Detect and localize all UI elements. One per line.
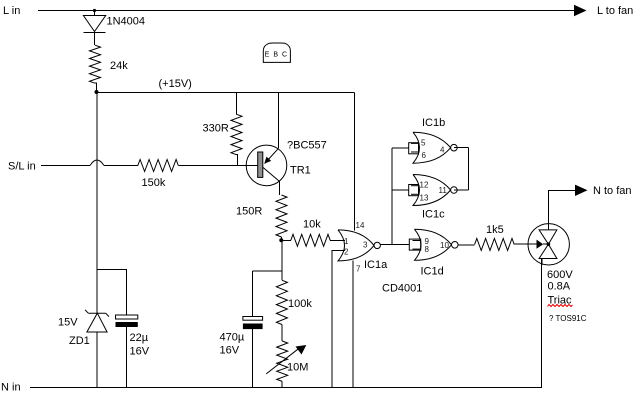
svg-text:150R: 150R <box>236 206 262 218</box>
svg-text:N to fan: N to fan <box>593 185 632 197</box>
svg-text:IC1a: IC1a <box>364 259 388 271</box>
svg-text:(+15V): (+15V) <box>159 78 192 90</box>
svg-text:L to fan: L to fan <box>597 5 633 17</box>
junction diode tap <box>93 9 96 12</box>
svg-text:11: 11 <box>439 186 448 195</box>
svg-text:TR1: TR1 <box>290 165 311 177</box>
wire bus to IC1c input <box>392 189 409 191</box>
svg-text:10M: 10M <box>287 362 308 374</box>
transistor package outline EBC <box>263 43 290 62</box>
junction triac gate <box>547 242 551 246</box>
wire 150R to junction <box>281 237 283 240</box>
wire 470u top lead <box>251 271 253 316</box>
transistor TR1 BC557 <box>246 145 287 186</box>
wire 24k to +15V rail <box>95 83 97 92</box>
svg-text:16V: 16V <box>130 346 150 358</box>
wire collector down <box>278 181 280 195</box>
svg-text:8: 8 <box>425 245 430 254</box>
capacitor 22u 16V <box>116 315 138 327</box>
wire 470u bottom to N line <box>251 329 253 387</box>
zener diode ZD1 15V <box>85 310 109 332</box>
svg-text:24k: 24k <box>110 60 128 72</box>
wire tee to 22u capacitor <box>97 269 127 315</box>
wire pin 7 to N line <box>352 260 354 387</box>
svg-text:S/L in: S/L in <box>8 161 36 173</box>
svg-text:150k: 150k <box>142 177 166 189</box>
wire +15V node down to zener <box>96 93 98 314</box>
arrow L to fan <box>574 5 587 16</box>
wire L in to L to fan <box>38 10 575 12</box>
svg-text:IC1b: IC1b <box>422 117 445 129</box>
wire 10M to N line <box>281 381 283 387</box>
wire 150k to base <box>178 165 257 167</box>
arrow gate <box>537 240 544 249</box>
svg-text:22µ: 22µ <box>130 332 149 344</box>
wire 100k to 10M <box>281 325 283 342</box>
svg-text:ZD1: ZD1 <box>69 335 90 347</box>
svg-text:7: 7 <box>356 265 361 274</box>
svg-text:1: 1 <box>344 237 349 246</box>
wire N in line <box>30 387 542 389</box>
wire IC1a out to gates input bus <box>380 244 409 246</box>
svg-text:10k: 10k <box>303 219 321 231</box>
svg-text:?BC557: ?BC557 <box>287 140 327 152</box>
svg-text:15V: 15V <box>58 317 78 329</box>
svg-text:? TOS91C: ? TOS91C <box>549 314 587 323</box>
arrow N to fan <box>575 185 588 196</box>
diode D1 1N4004 <box>83 16 105 33</box>
resistor 150R <box>276 195 287 237</box>
potentiometer 10M <box>277 341 288 381</box>
wire pin 14 from rail <box>354 93 356 231</box>
svg-text:16V: 16V <box>220 345 240 357</box>
wire input bus vertical <box>391 148 393 245</box>
wire triac bottom to N line <box>541 259 543 388</box>
wire junction to 10k <box>281 239 291 241</box>
wire rail to 330R <box>236 93 238 115</box>
wire S/L in with hop over supply line <box>41 165 90 167</box>
resistor 330R <box>231 114 242 154</box>
svg-text:2: 2 <box>344 247 349 256</box>
svg-text:1k5: 1k5 <box>486 224 504 236</box>
svg-text:600V: 600V <box>547 269 573 281</box>
wire junction down to cap tee <box>281 240 283 280</box>
wire IC1d out to 1k5 <box>458 244 475 246</box>
wire IC1b out <box>454 147 469 149</box>
wire output tie vertical <box>468 148 470 190</box>
svg-text:IC1c: IC1c <box>422 208 445 220</box>
capacitor 470u 16V <box>243 317 263 330</box>
svg-text:N in: N in <box>1 382 21 394</box>
wire 10k to pin 1 <box>330 239 345 241</box>
wire tee to 470u <box>252 270 282 272</box>
svg-text:L in: L in <box>3 5 20 17</box>
svg-text:1N4004: 1N4004 <box>107 16 146 28</box>
svg-text:5: 5 <box>421 139 426 148</box>
resistor 24k <box>90 45 101 83</box>
op-amp gate IC1b NOR <box>411 132 457 163</box>
spellcheck squiggle <box>548 305 573 307</box>
svg-text:12: 12 <box>420 181 429 190</box>
svg-text:IC1d: IC1d <box>421 266 444 278</box>
wire 1k5 to triac gate <box>514 243 537 245</box>
resistor 1k5 <box>475 238 515 250</box>
resistor 10k <box>291 234 330 246</box>
wire 22u bottom to N line <box>126 327 128 387</box>
svg-text:CD4001: CD4001 <box>382 283 422 295</box>
op-amp gate IC1d NOR <box>413 229 459 260</box>
wire diode to 24k <box>94 32 96 45</box>
wire emitter to rail <box>278 93 280 149</box>
wire triac top to N to fan <box>549 190 577 223</box>
wire diode top lead <box>94 11 96 16</box>
wire pin 2 from N line <box>332 251 345 387</box>
pot arrow <box>266 348 299 374</box>
wire +15V rail <box>97 92 355 94</box>
wire bus to IC1b input <box>392 147 409 149</box>
op-amp gate IC1a NOR <box>338 230 380 261</box>
triac 600V 0.8A <box>528 224 569 265</box>
wire 330R to base line <box>237 155 238 166</box>
svg-text:4: 4 <box>440 146 445 155</box>
svg-text:10: 10 <box>440 241 449 250</box>
svg-text:E B C: E B C <box>265 52 288 59</box>
wire IC1c out <box>454 189 469 191</box>
IC1d input tie box <box>409 239 420 250</box>
svg-text:100k: 100k <box>288 298 312 310</box>
svg-text:470µ: 470µ <box>220 332 245 344</box>
IC1b input tie box <box>409 143 419 154</box>
svg-text:3: 3 <box>363 241 368 250</box>
svg-text:0.8A: 0.8A <box>548 281 571 293</box>
wire zener to N line <box>96 332 98 387</box>
junction +15V node <box>95 90 99 94</box>
junction 150R/10k/100k <box>279 238 283 242</box>
op-amp gate IC1c NOR <box>411 175 457 206</box>
svg-text:6: 6 <box>422 151 427 160</box>
IC1c input tie box <box>409 185 419 196</box>
svg-text:14: 14 <box>356 221 365 230</box>
resistor 100k <box>276 280 287 324</box>
svg-text:330R: 330R <box>203 123 229 135</box>
resistor 150k <box>138 160 179 172</box>
svg-text:13: 13 <box>420 193 429 202</box>
